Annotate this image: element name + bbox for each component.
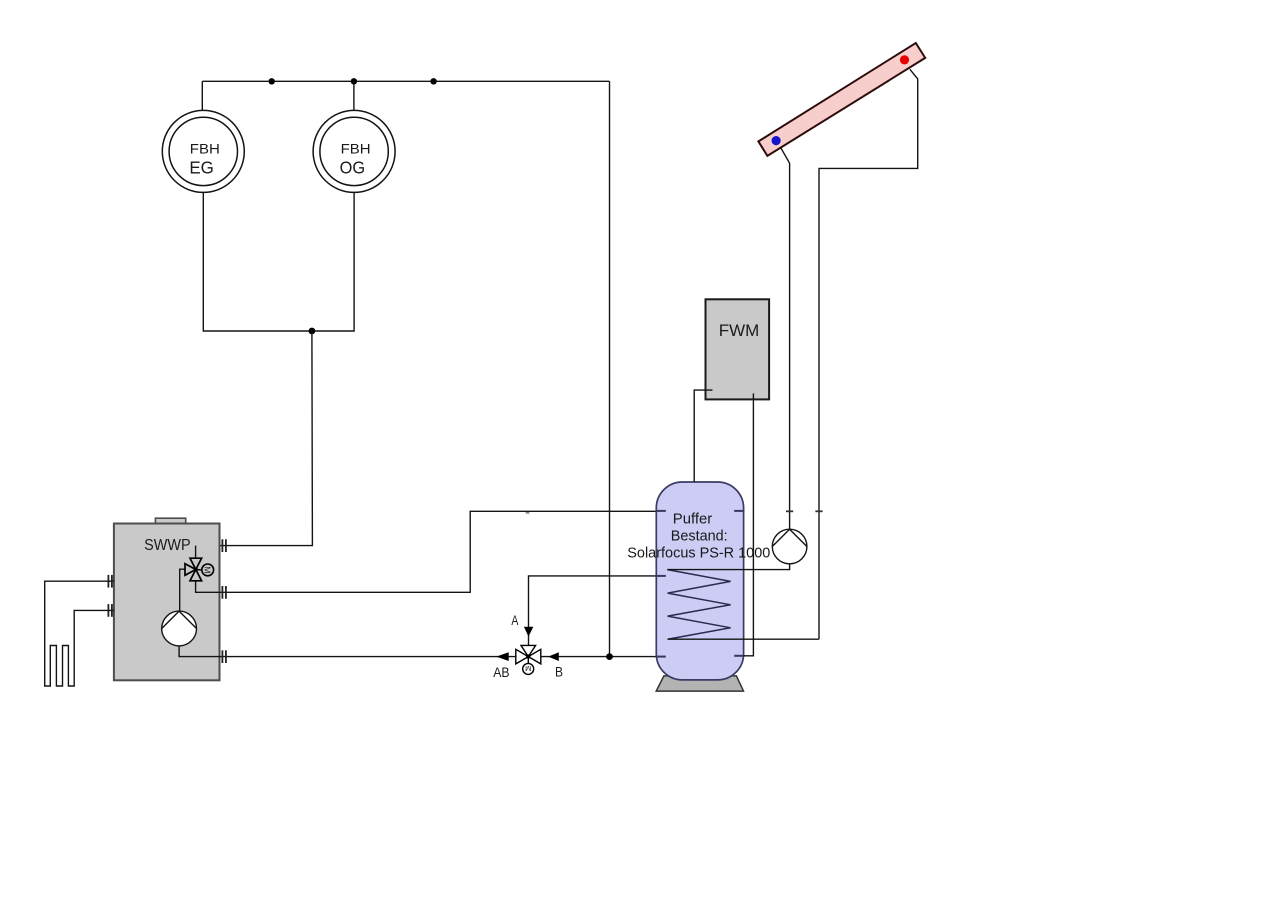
- svg-text:M: M: [525, 664, 531, 673]
- wire top bus: [202, 80, 609, 82]
- FBH EG circle: [162, 110, 244, 192]
- FWM box: [706, 299, 770, 399]
- svg-text:M: M: [203, 566, 213, 573]
- valve V1 center dot: [526, 654, 530, 658]
- buffer tank base trapezoid: [656, 676, 743, 691]
- wire collector cold down-pipe: [781, 148, 790, 529]
- node dot J3: [430, 78, 436, 84]
- heat exchanger coil in tank: [667, 570, 730, 640]
- pipe ticks tank edges: [656, 511, 745, 657]
- svg-text:AB: AB: [493, 665, 509, 680]
- node dot J1: [269, 78, 275, 84]
- svg-text:FWM: FWM: [719, 321, 760, 340]
- wire SWWP valve left to pump: [180, 569, 186, 611]
- svg-text:OG: OG: [340, 157, 366, 177]
- svg-text:FBH: FBH: [190, 141, 220, 156]
- wire FWM bottom pipe to tank bottom right: [744, 393, 754, 655]
- node dot B junction: [606, 653, 613, 660]
- wire brine loop (ground probe serpentine): [45, 581, 114, 686]
- arrow AB (left): [496, 652, 508, 661]
- wire coil bottom exit to collector return: [668, 638, 819, 640]
- SWWP box: [114, 518, 220, 680]
- wire FBH flow long riser: [609, 81, 611, 656]
- arrow B (left): [548, 652, 559, 661]
- wire collector hot down-pipe: [819, 69, 918, 639]
- node dot return junction: [309, 328, 316, 335]
- wire FBH return riser to SWWP: [196, 331, 313, 546]
- node dot J2: [351, 78, 357, 84]
- pipe ticks SWWP right edge: [222, 539, 226, 663]
- wire FBH-EG top stub: [201, 81, 203, 110]
- svg-text:B: B: [555, 664, 563, 679]
- svg-text:Puffer: Puffer: [673, 510, 712, 527]
- wire FWM left pipe to tank top: [694, 390, 712, 482]
- solar collector panel: [758, 43, 925, 156]
- collector cold port (blue dot): [772, 136, 781, 145]
- buffer tank Puffer: [656, 482, 743, 680]
- arrow A (down): [524, 627, 533, 637]
- pipe ticks SWWP left edge: [108, 575, 112, 617]
- pipe tick on solar hot pipe: [815, 510, 822, 512]
- collector hot port (red dot): [900, 55, 909, 64]
- pump SWWP: [162, 611, 197, 646]
- pump solar: [772, 529, 807, 564]
- wire valve-A line from tank: [529, 576, 657, 645]
- valve V1 (A/AB/B 3-way, white): [516, 645, 541, 674]
- label tank: [627, 510, 770, 561]
- wire SWWP valve top pipe: [195, 546, 197, 558]
- wire SWWP pump out (AB line) to valve and tank bottom: [179, 646, 656, 657]
- svg-text:A: A: [511, 613, 518, 628]
- wire FBH-OG bottom stub: [312, 192, 354, 331]
- svg-text:SWWP: SWWP: [144, 537, 191, 554]
- pipe tick on solar cold pipe: [786, 510, 793, 512]
- wire SWWP valve bottom pipe to tank mid: [196, 511, 657, 592]
- wire FBH-OG top stub: [353, 81, 355, 110]
- wire FBH-EG bottom stub: [203, 192, 312, 331]
- tiny nub on flow line: [526, 512, 530, 514]
- svg-text:EG: EG: [189, 157, 214, 177]
- wire coil top entry from pump: [667, 564, 789, 570]
- mixing valve SWWP (3-way, outline): [185, 558, 214, 581]
- svg-text:Solarfocus PS-R 1000: Solarfocus PS-R 1000: [627, 545, 770, 562]
- svg-text:FBH: FBH: [341, 141, 371, 156]
- FBH OG circle: [313, 110, 395, 192]
- svg-text:Bestand:: Bestand:: [671, 528, 728, 545]
